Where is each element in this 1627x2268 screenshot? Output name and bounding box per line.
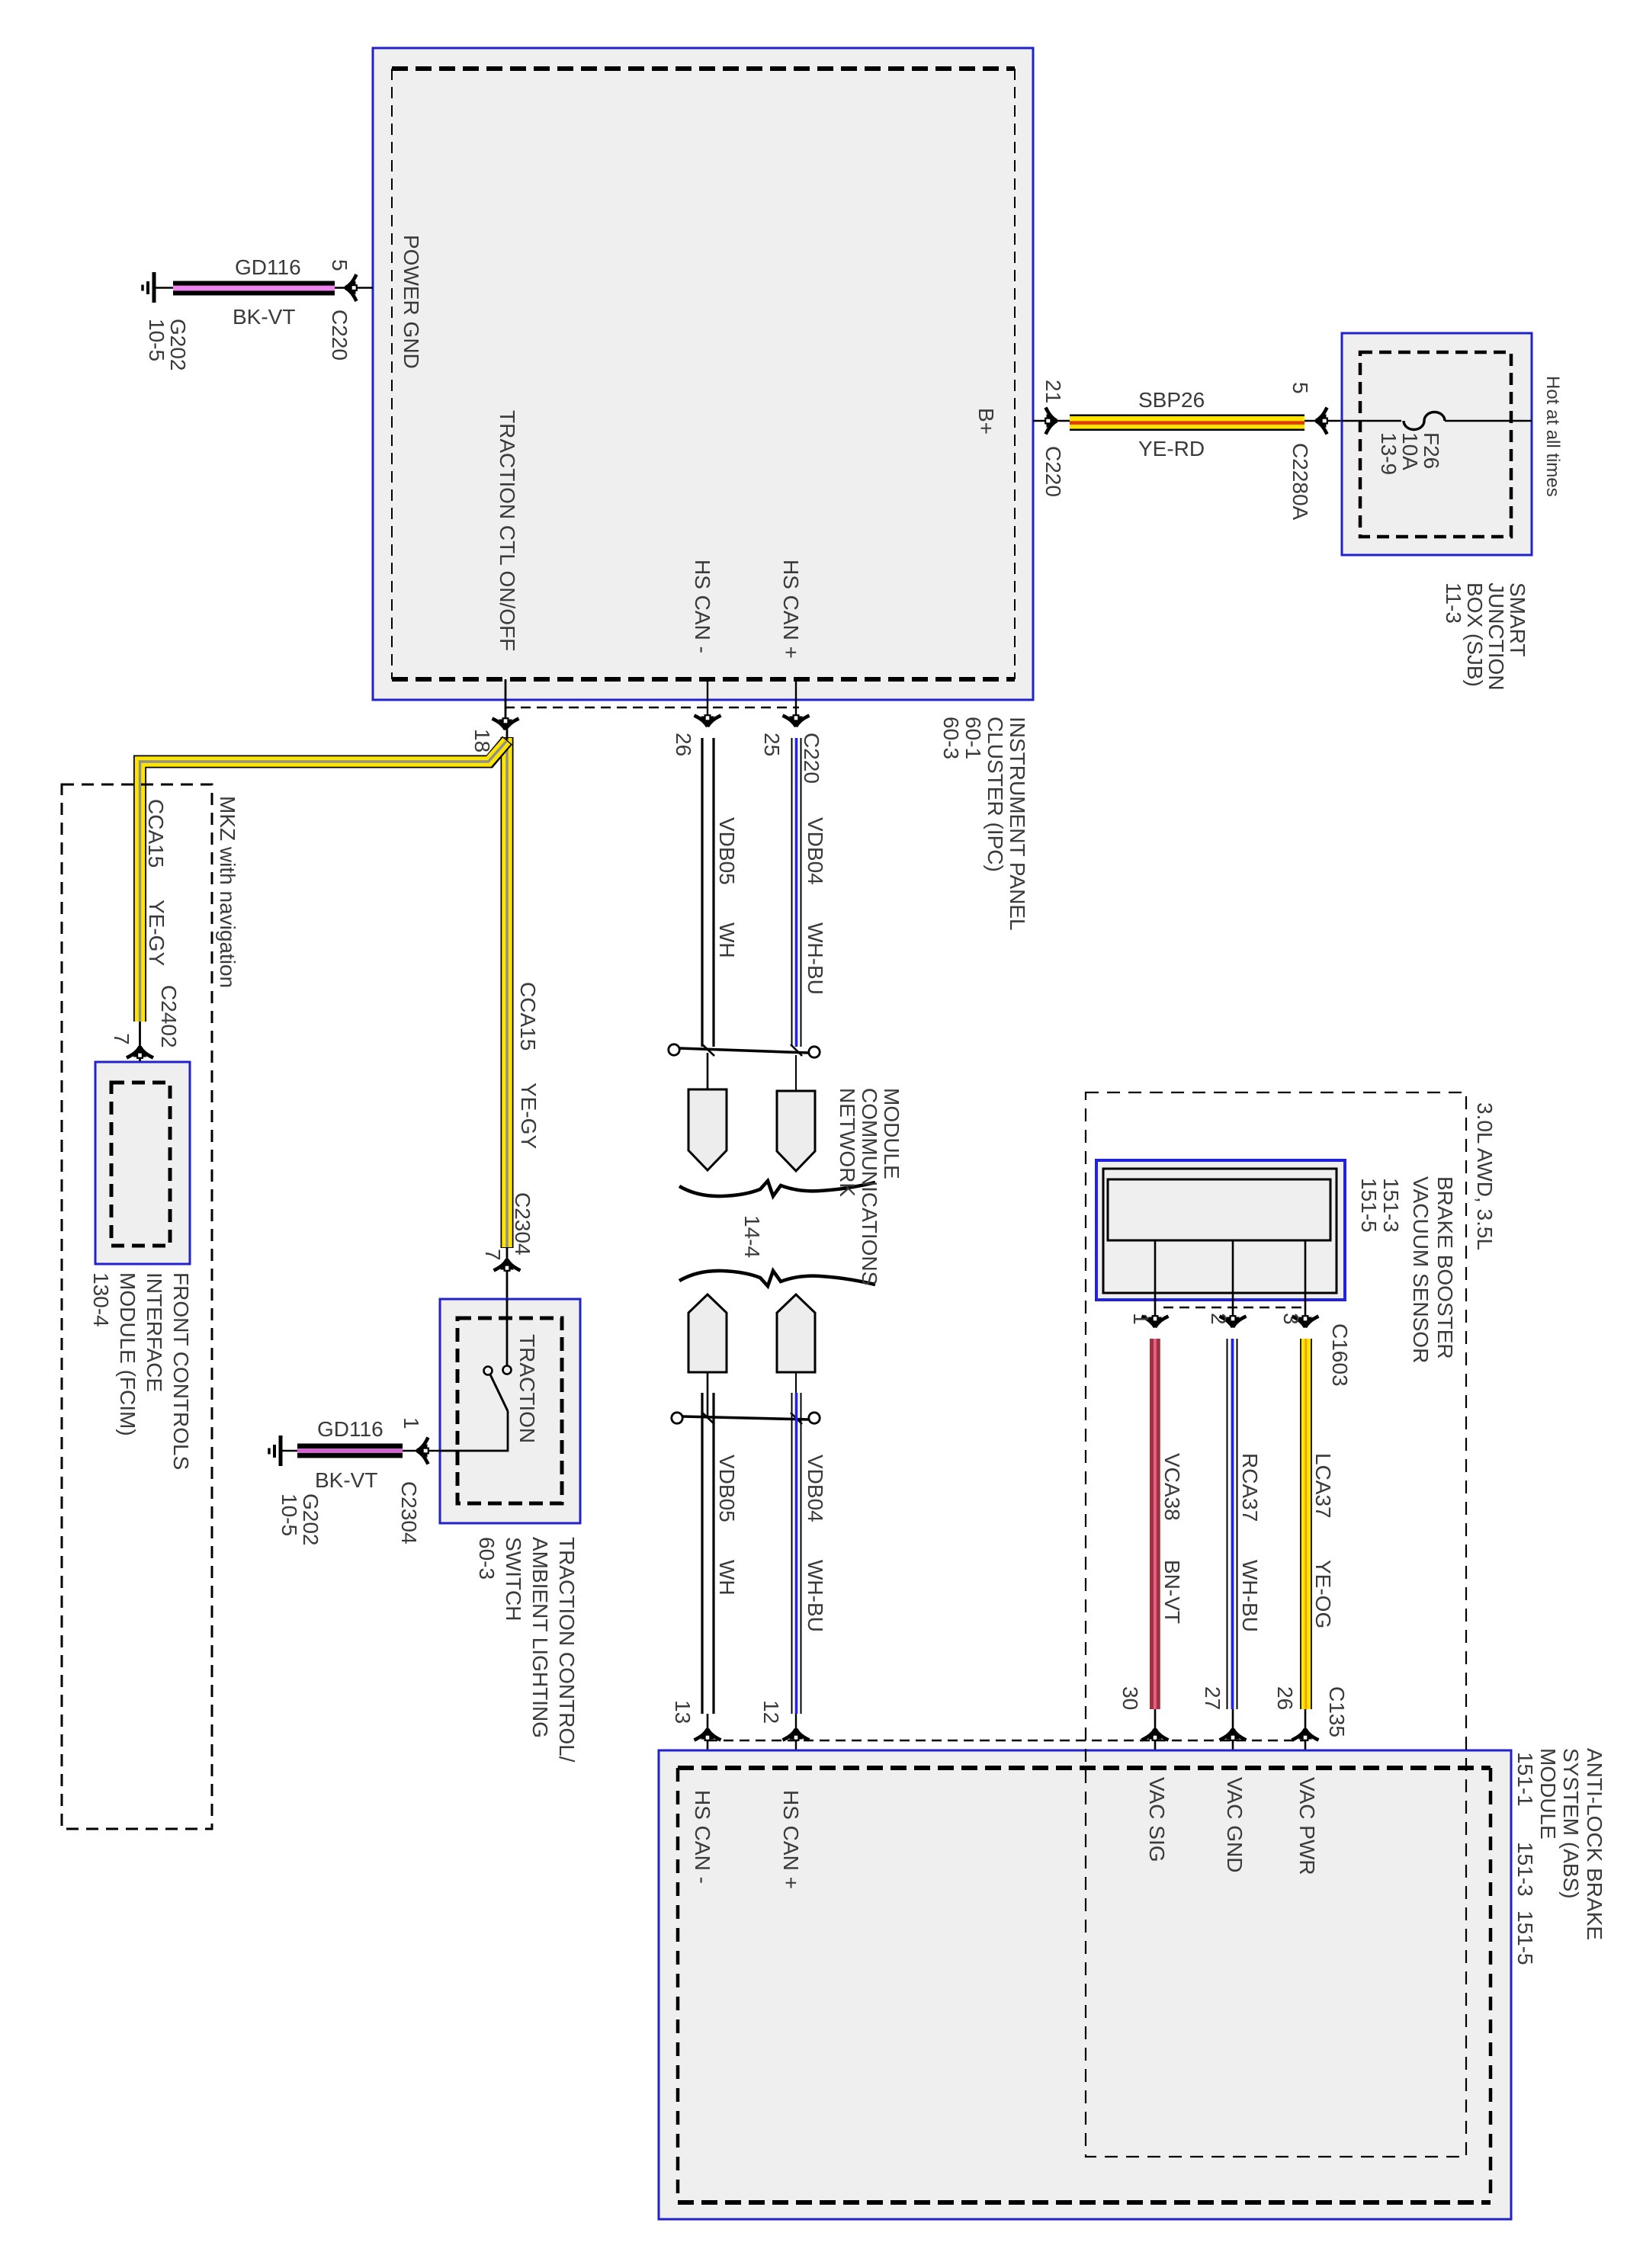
svg-text:TRACTION CONTROL/: TRACTION CONTROL/ bbox=[555, 1537, 579, 1763]
connector arrow at SJB pin 5 bbox=[1304, 408, 1342, 435]
svg-text:13: 13 bbox=[671, 1700, 695, 1724]
svg-text:13-9: 13-9 bbox=[1377, 432, 1401, 475]
svg-text:VAC GND: VAC GND bbox=[1223, 1777, 1247, 1873]
svg-text:WH-BU: WH-BU bbox=[804, 1560, 827, 1632]
wire VDB04 WH-BU (lower run) bbox=[792, 1393, 801, 1714]
circuit break squiggle (lower) bbox=[679, 1271, 875, 1286]
svg-text:151-1: 151-1 bbox=[1513, 1752, 1537, 1807]
instrument panel cluster (IPC) module box bbox=[373, 48, 1033, 700]
connector arrow at switch pin 1 bbox=[416, 1438, 428, 1464]
svg-text:5: 5 bbox=[328, 259, 351, 271]
IPC pin 21 stub bbox=[1033, 408, 1057, 435]
svg-text:WH: WH bbox=[715, 922, 739, 958]
connector arrow at IPC pin 5 bbox=[345, 274, 373, 301]
svg-text:WH: WH bbox=[715, 1560, 739, 1596]
svg-text:3: 3 bbox=[1279, 1313, 1303, 1325]
single lead to in-line connector (VDB04) bbox=[795, 1055, 797, 1092]
svg-text:C1603: C1603 bbox=[1328, 1323, 1352, 1387]
svg-text:YE-GY: YE-GY bbox=[145, 900, 168, 966]
wire GD116 BK-VT (IPC power ground) bbox=[173, 281, 345, 296]
svg-text:YE-OG: YE-OG bbox=[1311, 1560, 1335, 1628]
svg-text:30: 30 bbox=[1118, 1686, 1142, 1710]
single lead to in-line connector (VDB05) bbox=[707, 1053, 709, 1090]
svg-text:MODULE: MODULE bbox=[880, 1088, 903, 1179]
svg-text:5: 5 bbox=[1288, 382, 1312, 394]
SJB module name label bbox=[1442, 582, 1529, 691]
front controls interface module (FCIM) box bbox=[95, 1062, 190, 1264]
FCIM module name label bbox=[89, 1272, 193, 1470]
svg-text:JUNCTION: JUNCTION bbox=[1484, 582, 1508, 691]
ground label G202 10-5 (switch) bbox=[278, 1493, 323, 1546]
svg-text:60-1: 60-1 bbox=[961, 717, 985, 759]
svg-text:WH-BU: WH-BU bbox=[1238, 1560, 1262, 1632]
svg-text:G202: G202 bbox=[166, 319, 190, 371]
svg-text:MKZ with navigation: MKZ with navigation bbox=[216, 796, 239, 988]
svg-text:C220: C220 bbox=[1041, 446, 1065, 497]
svg-text:26: 26 bbox=[672, 733, 695, 756]
svg-text:C2304: C2304 bbox=[511, 1192, 534, 1256]
svg-text:25: 25 bbox=[760, 733, 784, 756]
svg-text:BK-VT: BK-VT bbox=[233, 305, 295, 329]
svg-text:151-3: 151-3 bbox=[1379, 1178, 1403, 1233]
single lead from in-line connector (VDB05) bbox=[707, 1372, 709, 1418]
twisted pair crossover (upper) bbox=[669, 1044, 820, 1057]
svg-text:151-5: 151-5 bbox=[1357, 1178, 1381, 1233]
svg-text:BRAKE BOOSTER: BRAKE BOOSTER bbox=[1433, 1176, 1457, 1359]
svg-text:VDB05: VDB05 bbox=[715, 1455, 739, 1522]
svg-text:60-3: 60-3 bbox=[475, 1537, 499, 1580]
svg-text:C220: C220 bbox=[800, 733, 823, 784]
svg-text:F26: F26 bbox=[1420, 432, 1443, 469]
svg-text:TRACTION: TRACTION bbox=[515, 1334, 539, 1443]
IPC pin 25 stub and arrow bbox=[783, 679, 810, 727]
svg-text:TRACTION CTL ON/OFF: TRACTION CTL ON/OFF bbox=[496, 410, 519, 651]
wire LCA37 YE-OG bbox=[1300, 1339, 1312, 1729]
svg-text:HS CAN -: HS CAN - bbox=[691, 560, 714, 653]
svg-text:151-5: 151-5 bbox=[1513, 1910, 1537, 1965]
svg-text:BOX (SJB): BOX (SJB) bbox=[1463, 582, 1487, 687]
svg-text:C2402: C2402 bbox=[157, 985, 181, 1048]
svg-text:MODULE (FCIM): MODULE (FCIM) bbox=[116, 1272, 140, 1436]
sensor pin 3 arrow bbox=[1292, 1316, 1319, 1328]
in-line connector (VDB04, pointing up) bbox=[777, 1294, 815, 1372]
svg-text:SMART: SMART bbox=[1506, 582, 1529, 657]
svg-text:2: 2 bbox=[1207, 1313, 1231, 1325]
ground G202 (switch) bbox=[269, 1436, 297, 1466]
svg-text:C135: C135 bbox=[1325, 1686, 1349, 1737]
single lead from in-line connector (VDB04) bbox=[795, 1372, 797, 1418]
svg-text:VCA38: VCA38 bbox=[1160, 1453, 1184, 1521]
wire VDB05 WH (lower run) bbox=[702, 1393, 714, 1714]
IPC module name label bbox=[939, 717, 1029, 931]
svg-text:SWITCH: SWITCH bbox=[502, 1537, 525, 1621]
svg-text:CCA15: CCA15 bbox=[144, 799, 168, 868]
svg-text:7: 7 bbox=[110, 1033, 133, 1045]
3.0L AWD 3.5L option dashed box bbox=[1086, 1092, 1466, 2157]
svg-text:B+: B+ bbox=[974, 408, 998, 435]
brake booster vacuum sensor box bbox=[1096, 1160, 1345, 1300]
svg-text:BK-VT: BK-VT bbox=[315, 1468, 377, 1492]
in-line connector (VDB04, pointing down) bbox=[777, 1091, 815, 1171]
traction switch contacts bbox=[417, 1299, 512, 1451]
connector C220 dashed line under IPC bbox=[505, 707, 799, 708]
connector C135 dashed line bbox=[708, 1740, 1306, 1741]
svg-text:VAC SIG: VAC SIG bbox=[1145, 1777, 1169, 1862]
svg-text:18: 18 bbox=[470, 729, 494, 752]
svg-text:Hot at all times: Hot at all times bbox=[1542, 376, 1563, 497]
wire VDB05 WH (upper run) bbox=[702, 738, 714, 1047]
svg-text:C2304: C2304 bbox=[397, 1481, 421, 1545]
svg-text:INSTRUMENT PANEL: INSTRUMENT PANEL bbox=[1006, 717, 1029, 931]
ABS pin 30 arrow bbox=[1142, 1728, 1169, 1769]
fuse label F26 10A 13-9 bbox=[1377, 432, 1443, 475]
svg-text:RCA37: RCA37 bbox=[1238, 1453, 1262, 1522]
in-line connector (VDB05, pointing down) bbox=[688, 1089, 727, 1170]
svg-text:C220: C220 bbox=[328, 310, 351, 361]
svg-text:YE-GY: YE-GY bbox=[517, 1083, 541, 1149]
svg-text:ANTI-LOCK BRAKE: ANTI-LOCK BRAKE bbox=[1583, 1748, 1606, 1940]
svg-text:POWER GND: POWER GND bbox=[400, 235, 423, 369]
svg-text:130-4: 130-4 bbox=[89, 1272, 113, 1327]
svg-text:1: 1 bbox=[400, 1417, 423, 1429]
svg-text:SYSTEM (ABS): SYSTEM (ABS) bbox=[1559, 1748, 1583, 1899]
IPC pin 26 stub and arrow bbox=[695, 679, 721, 727]
svg-text:1: 1 bbox=[1129, 1313, 1153, 1325]
svg-text:BN-VT: BN-VT bbox=[1160, 1560, 1184, 1624]
svg-text:VDB04: VDB04 bbox=[804, 1455, 827, 1522]
anti-lock brake system (ABS) module box bbox=[659, 1750, 1511, 2219]
wire CCA15 YE-GY (pin 18 to switch, branch to FCIM) bbox=[140, 730, 508, 1248]
svg-text:VDB04: VDB04 bbox=[804, 817, 827, 885]
switch module name label bbox=[475, 1537, 579, 1763]
MKZ with navigation dashed box bbox=[62, 784, 212, 1829]
connector arrow at FCIM pin 7 bbox=[127, 1022, 153, 1083]
ABS pin 26 arrow bbox=[1292, 1728, 1319, 1769]
module communications network label bbox=[836, 1088, 903, 1285]
svg-text:AMBIENT LIGHTING: AMBIENT LIGHTING bbox=[528, 1537, 552, 1738]
circuit break squiggle (upper) bbox=[679, 1181, 875, 1196]
sensor pin 2 arrow bbox=[1220, 1316, 1247, 1328]
svg-text:COMMUNICATIONS: COMMUNICATIONS bbox=[858, 1088, 881, 1285]
svg-text:HS CAN +: HS CAN + bbox=[779, 560, 803, 659]
svg-text:HS CAN +: HS CAN + bbox=[779, 1790, 803, 1889]
svg-text:60-3: 60-3 bbox=[939, 717, 963, 759]
svg-text:GD116: GD116 bbox=[317, 1417, 383, 1441]
svg-text:YE-RD: YE-RD bbox=[1138, 437, 1205, 460]
svg-text:10-5: 10-5 bbox=[278, 1493, 301, 1536]
wire RCA37 WH-BU bbox=[1227, 1339, 1237, 1729]
svg-text:FRONT CONTROLS: FRONT CONTROLS bbox=[169, 1272, 193, 1470]
svg-text:SBP26: SBP26 bbox=[1138, 388, 1205, 412]
svg-text:VDB05: VDB05 bbox=[715, 817, 739, 885]
ground label G202 10-5 (top left) bbox=[145, 319, 190, 371]
connector C1603 dashed line bbox=[1163, 1307, 1307, 1308]
wire GD116 BK-VT (switch ground) bbox=[297, 1444, 417, 1458]
svg-text:G202: G202 bbox=[299, 1493, 323, 1546]
svg-text:VACUUM SENSOR: VACUUM SENSOR bbox=[1409, 1176, 1433, 1363]
svg-text:10-5: 10-5 bbox=[145, 319, 168, 361]
svg-text:INTERFACE: INTERFACE bbox=[143, 1272, 166, 1392]
svg-text:NETWORK: NETWORK bbox=[836, 1088, 859, 1197]
smart junction box (SJB) bbox=[1342, 333, 1532, 555]
sensor pin 1 arrow bbox=[1142, 1316, 1169, 1328]
svg-text:MODULE: MODULE bbox=[1536, 1748, 1560, 1840]
ground G202 (top left) bbox=[143, 272, 174, 303]
IPC pin 18 stub and arrow bbox=[493, 679, 519, 730]
svg-text:CLUSTER (IPC): CLUSTER (IPC) bbox=[984, 717, 1007, 872]
sensor name label bbox=[1357, 1176, 1457, 1363]
svg-text:HS CAN -: HS CAN - bbox=[691, 1790, 714, 1884]
svg-text:7: 7 bbox=[481, 1249, 505, 1261]
traction control / ambient lighting switch box bbox=[440, 1299, 580, 1523]
svg-text:3.0L AWD, 3.5L: 3.0L AWD, 3.5L bbox=[1473, 1102, 1497, 1250]
svg-text:C2280A: C2280A bbox=[1288, 443, 1312, 521]
svg-text:21: 21 bbox=[1041, 380, 1065, 403]
svg-text:GD116: GD116 bbox=[235, 255, 301, 279]
ABS pin 12 arrow bbox=[783, 1714, 810, 1769]
svg-text:12: 12 bbox=[759, 1700, 783, 1724]
svg-text:151-3: 151-3 bbox=[1513, 1842, 1537, 1897]
svg-text:VAC PWR: VAC PWR bbox=[1295, 1777, 1319, 1875]
ABS pin 13 arrow bbox=[695, 1714, 721, 1769]
fuse F26 10A bbox=[1342, 412, 1532, 430]
svg-text:WH-BU: WH-BU bbox=[804, 922, 827, 995]
svg-text:CCA15: CCA15 bbox=[516, 982, 540, 1051]
connector arrow at switch pin 7 bbox=[494, 1248, 521, 1299]
wire SBP26 YE-RD bbox=[1057, 415, 1304, 431]
svg-text:14-4: 14-4 bbox=[740, 1215, 764, 1258]
svg-text:26: 26 bbox=[1273, 1686, 1297, 1710]
svg-text:27: 27 bbox=[1201, 1686, 1224, 1710]
in-line connector (VDB05, pointing up) bbox=[688, 1294, 727, 1372]
svg-text:10A: 10A bbox=[1398, 432, 1422, 470]
ABS pin 27 arrow bbox=[1220, 1728, 1247, 1769]
twisted pair crossover (lower) bbox=[672, 1412, 820, 1424]
svg-text:LCA37: LCA37 bbox=[1311, 1453, 1335, 1519]
sensor internal leads bbox=[1155, 1240, 1305, 1327]
svg-text:11-3: 11-3 bbox=[1442, 582, 1465, 624]
wire VDB04 WH-BU (upper run) bbox=[792, 738, 801, 1047]
ABS module name label bbox=[1513, 1748, 1606, 1965]
wire VCA38 BN-VT bbox=[1150, 1339, 1160, 1729]
